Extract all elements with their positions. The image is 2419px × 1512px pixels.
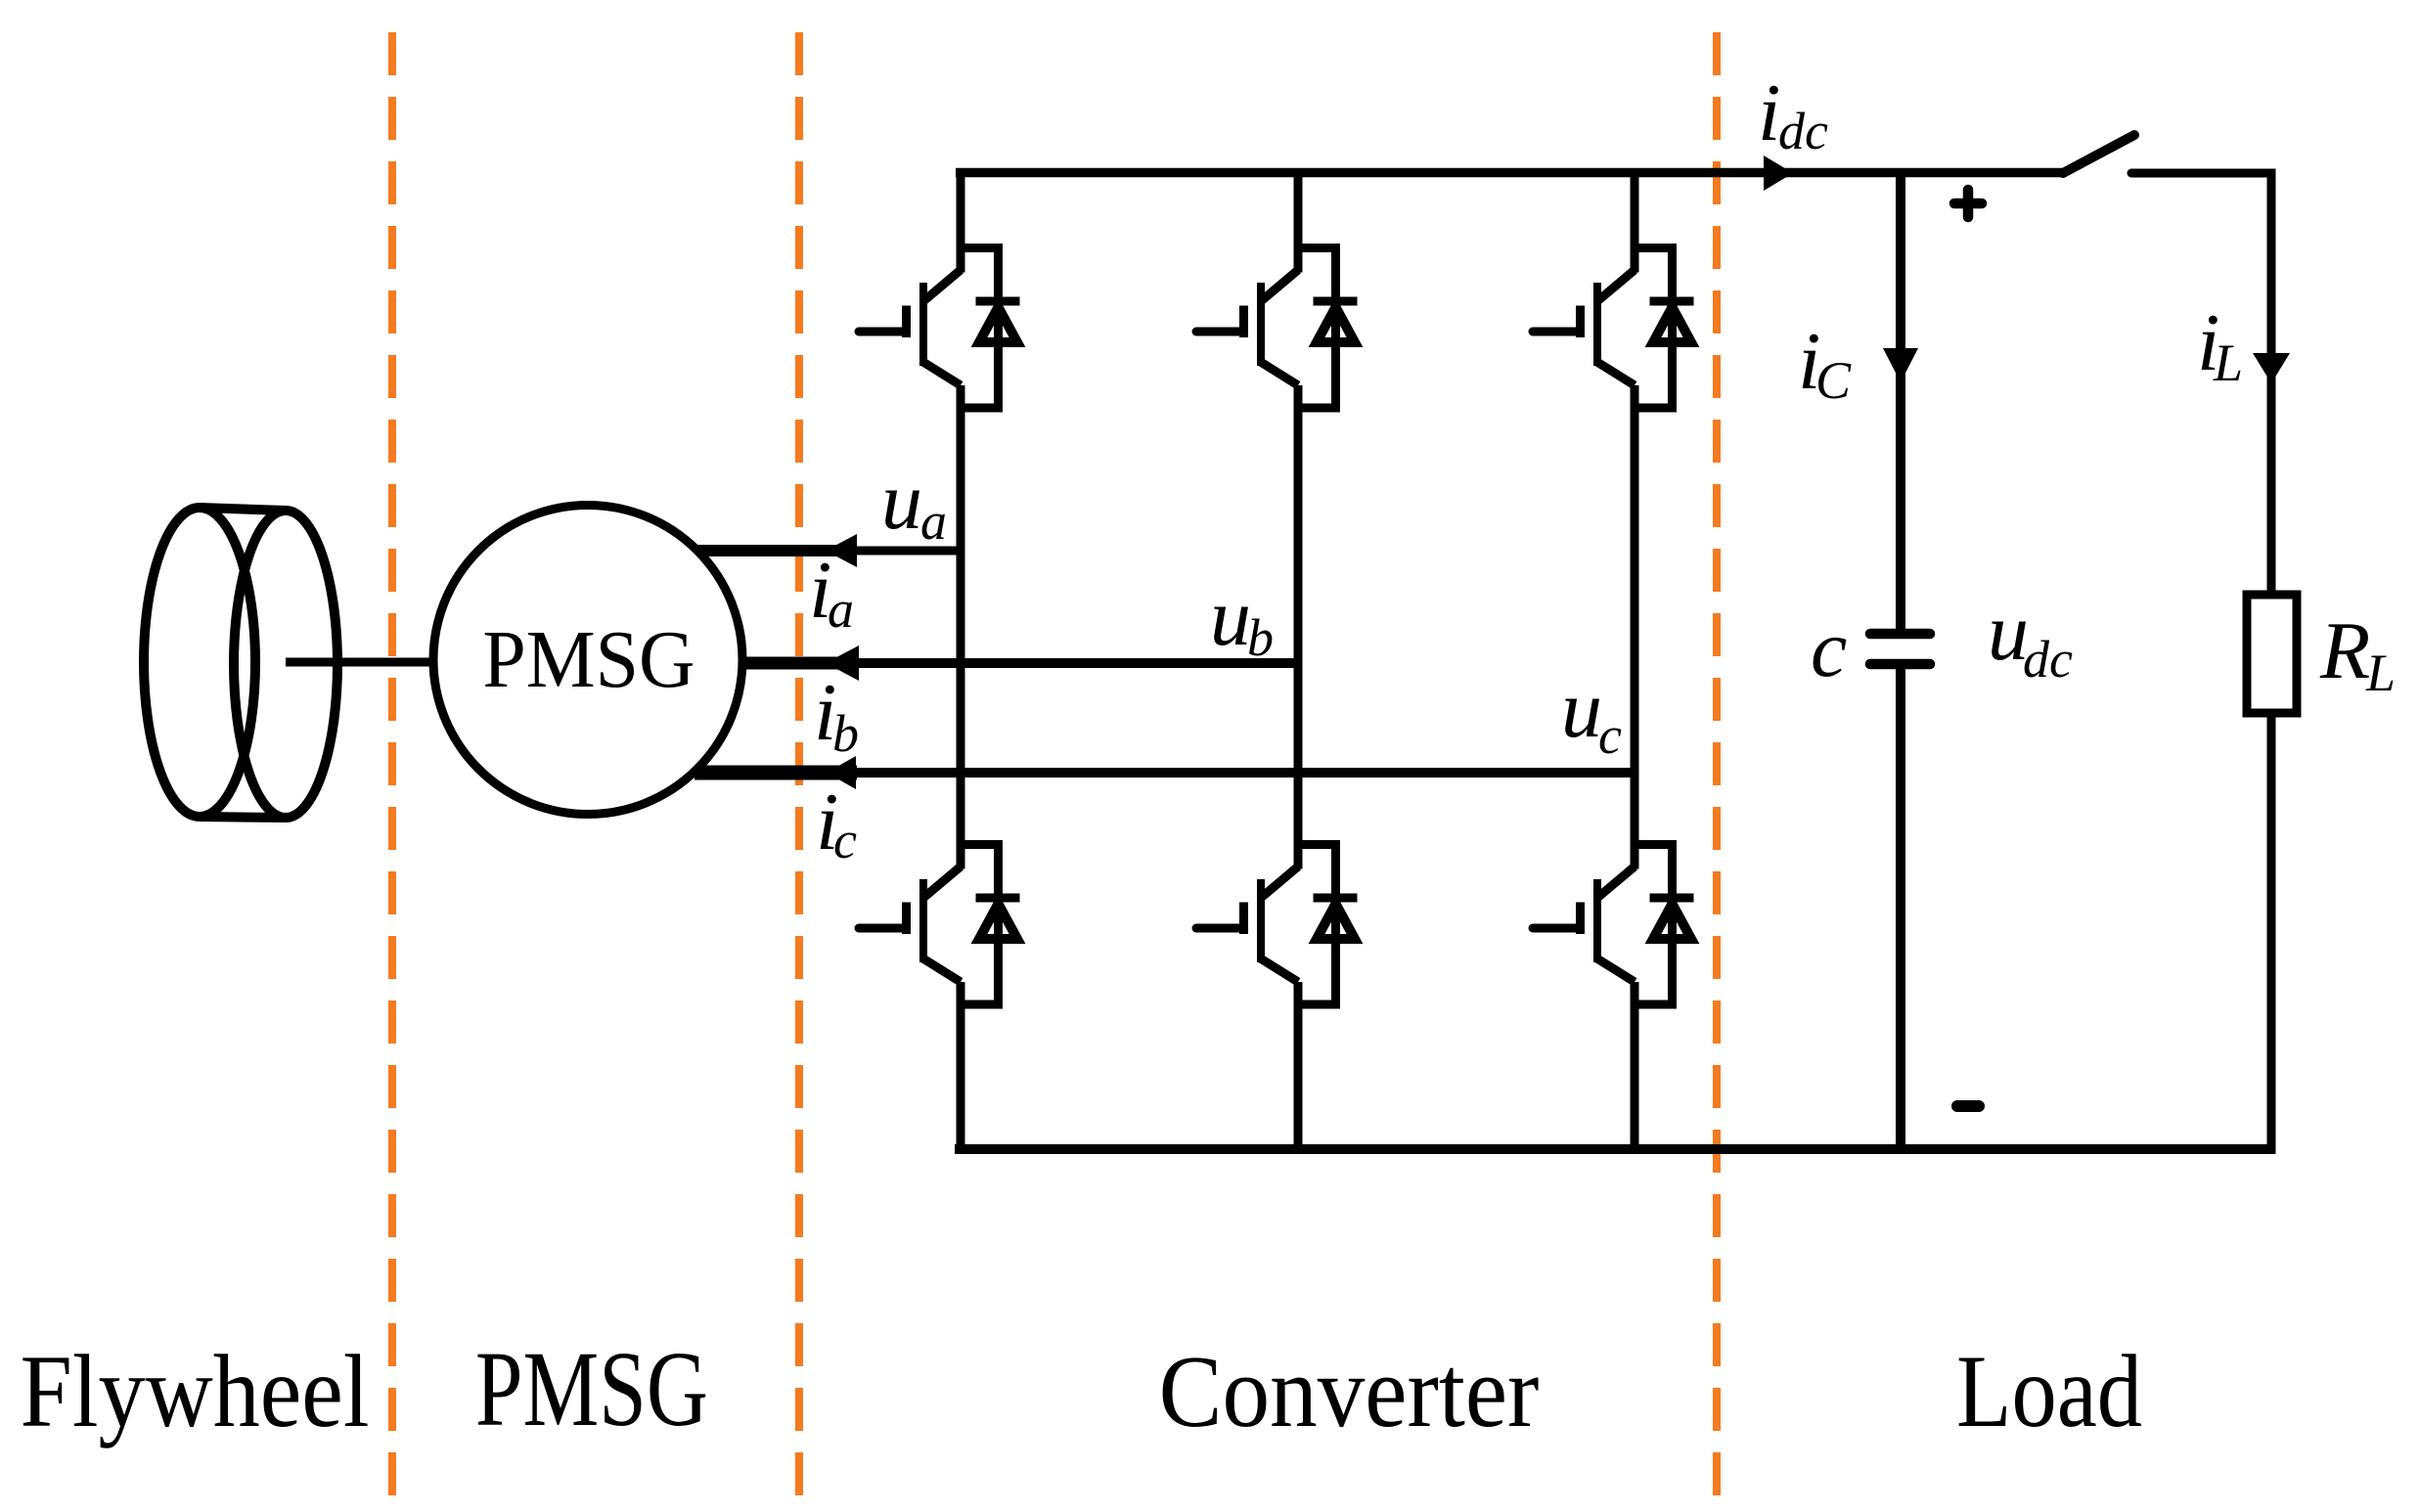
- svg-text:a: a: [920, 492, 947, 551]
- svg-text:PMSG: PMSG: [482, 613, 694, 704]
- igbt Q4 with antiparallel diode (phase B lower): [1196, 845, 1358, 1005]
- arrow on wire u_a (current i_a, pointing left): [826, 534, 857, 567]
- wire load branch top (switch to right corner and down): [2131, 173, 2271, 595]
- switch (open blade): [2063, 135, 2134, 173]
- igbt Q2 with antiparallel diode (phase A lower): [859, 845, 1020, 1005]
- svg-text:L: L: [2213, 334, 2243, 392]
- flywheel: [144, 508, 337, 818]
- label i_b: [814, 667, 859, 763]
- wire bottom DC bus: [955, 1144, 2275, 1154]
- wire u_c (PMSG to converter leg C): [694, 766, 1635, 780]
- label u_c: [1561, 664, 1622, 765]
- arrow i_dc on top bus (pointing right): [1764, 156, 1793, 191]
- svg-text:u: u: [1210, 572, 1251, 663]
- zone divider dashed line 3 (Converter | Load): [1713, 32, 1721, 1512]
- svg-text:dc: dc: [1778, 102, 1828, 160]
- wire converter leg B: [1294, 168, 1303, 1154]
- wire top DC bus: [956, 168, 2063, 178]
- zone divider dashed line 2 (PMSG | Converter): [795, 32, 803, 1512]
- svg-text:Load: Load: [1956, 1333, 2142, 1448]
- capacitor c (plates): [1870, 634, 1930, 664]
- wire converter leg C: [1631, 168, 1639, 1154]
- polarity symbol + (DC link positive): [1954, 190, 1982, 217]
- label i_L: [2197, 297, 2243, 392]
- svg-text:PMSG: PMSG: [475, 1330, 708, 1449]
- svg-text:c: c: [1811, 603, 1847, 694]
- wire DC-link capacitor branch (bottom): [1896, 666, 1905, 1152]
- label u_dc: [1988, 587, 2073, 689]
- igbt Q1 with antiparallel diode (phase A upper): [859, 248, 1020, 409]
- svg-text:C: C: [1815, 351, 1852, 410]
- wire u_a (PMSG to converter leg A): [691, 545, 961, 556]
- svg-text:Flywheel: Flywheel: [21, 1334, 370, 1448]
- igbt Q6 with antiparallel diode (phase C lower): [1533, 845, 1694, 1005]
- generator PMSG (machine body): [433, 506, 742, 815]
- wire converter leg A: [957, 168, 965, 1154]
- polarity symbol - (DC link negative): [1957, 1100, 1979, 1112]
- svg-text:c: c: [833, 811, 857, 869]
- label u_b: [1210, 572, 1274, 667]
- resistor R_L (box): [2247, 595, 2297, 713]
- svg-text:b: b: [832, 704, 859, 763]
- igbt Q3 with antiparallel diode (phase B upper): [1196, 248, 1358, 409]
- label i_c: [816, 777, 857, 869]
- arrow on wire u_b (current i_b, pointing left): [826, 645, 859, 681]
- label R_L: [2319, 605, 2396, 702]
- igbt Q5 with antiparallel diode (phase C upper): [1533, 248, 1694, 409]
- svg-text:b: b: [1247, 608, 1274, 667]
- label i_C: [1798, 316, 1852, 410]
- svg-text:u: u: [1561, 664, 1602, 755]
- arrow on wire u_c (current i_c, pointing left): [827, 756, 856, 789]
- svg-text:i: i: [1758, 67, 1780, 158]
- svg-text:a: a: [828, 580, 854, 639]
- label u_a: [881, 456, 947, 551]
- label i_a: [809, 545, 854, 639]
- svg-text:Converter: Converter: [1159, 1335, 1540, 1448]
- zone divider dashed line 1 (Flywheel | PMSG): [388, 32, 396, 1512]
- shaft wire (flywheel to PMSG): [286, 658, 450, 667]
- svg-text:R: R: [2319, 605, 2370, 696]
- wire DC-link capacitor branch (top): [1896, 173, 1905, 632]
- svg-text:c: c: [1598, 706, 1622, 765]
- arrow i_C on capacitor branch (pointing down): [1883, 348, 1918, 382]
- label i_dc: [1758, 67, 1828, 160]
- svg-text:dc: dc: [2023, 630, 2073, 689]
- wire u_b (PMSG to converter leg B): [724, 657, 1298, 670]
- svg-text:L: L: [2365, 644, 2396, 702]
- wire load branch bottom (resistor to bottom bus): [2267, 713, 2276, 1154]
- svg-text:u: u: [881, 456, 922, 547]
- arrow i_L on load branch (pointing down): [2253, 353, 2290, 383]
